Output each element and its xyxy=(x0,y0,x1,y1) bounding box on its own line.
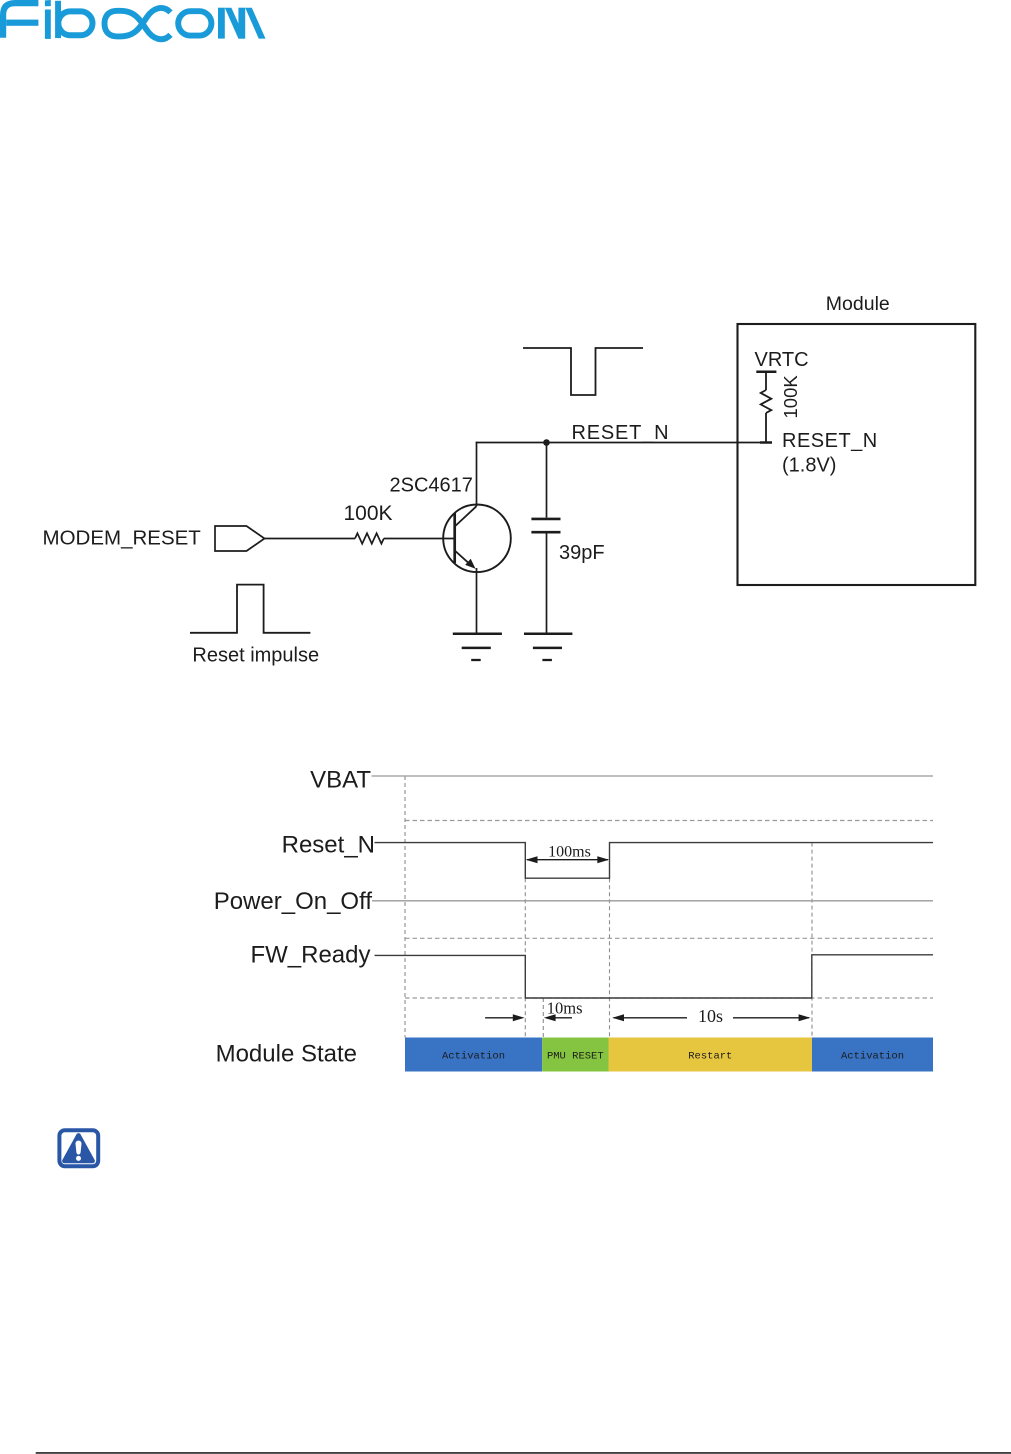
svg-text:PMU RESET: PMU RESET xyxy=(547,1050,604,1062)
svg-text:VRTC: VRTC xyxy=(755,349,809,371)
warning icon xyxy=(59,1130,98,1166)
svg-text:Activation: Activation xyxy=(841,1050,904,1062)
annotation 100ms double arrow xyxy=(526,856,609,863)
signal Reset_N waveform xyxy=(375,843,934,879)
Fibocom logo xyxy=(0,0,266,39)
module block U1 xyxy=(738,324,976,585)
svg-text:10ms: 10ms xyxy=(547,999,583,1018)
ground under transistor xyxy=(453,634,502,660)
grid dashed vertical at fw rise xyxy=(811,843,813,1038)
svg-text:Module State: Module State xyxy=(216,1040,357,1067)
logo letter F xyxy=(0,0,38,38)
wire emitter down to ground xyxy=(476,568,478,634)
wire collector up to RESET_N net xyxy=(476,442,478,507)
svg-text:Reset_N: Reset_N xyxy=(282,832,375,859)
wire resistor to transistor base xyxy=(384,538,454,540)
connector MODEM_RESET input pin xyxy=(215,526,265,551)
svg-text:(1.8V): (1.8V) xyxy=(782,455,836,477)
svg-text:Power_On_Off: Power_On_Off xyxy=(214,888,373,915)
waveform reset impulse xyxy=(190,585,310,633)
logo letter o xyxy=(178,11,211,35)
svg-text:100K: 100K xyxy=(780,375,801,419)
svg-text:Restart: Restart xyxy=(688,1050,732,1062)
wire capacitor down to ground xyxy=(546,534,548,634)
grid dashed vertical at t0 xyxy=(404,776,406,1038)
logo oc ligature xyxy=(105,8,171,39)
grid dashed horizontal line 1 xyxy=(405,820,933,822)
svg-text:Activation: Activation xyxy=(442,1050,505,1062)
logo letter i xyxy=(45,0,51,6)
svg-text:10s: 10s xyxy=(698,1006,723,1026)
ground under capacitor xyxy=(524,634,572,660)
logo letter b xyxy=(55,1,61,38)
node junction dot on RESET_N xyxy=(543,439,550,446)
signal FW_Ready waveform xyxy=(375,955,934,998)
grid dashed horizontal line 2 xyxy=(405,937,933,939)
state bar segment Activation 2 (blue) xyxy=(812,1038,933,1072)
waveform negative pulse (reset_n shape) xyxy=(523,348,643,395)
state bar segment Activation (blue) xyxy=(405,1038,542,1072)
grid dashed vertical at reset rise xyxy=(609,878,611,1037)
grid dashed vertical at reset fall xyxy=(524,878,526,1037)
grid dashed horizontal line 3 xyxy=(405,997,933,999)
svg-text:39pF: 39pF xyxy=(559,542,605,564)
state bar segment Restart (yellow) xyxy=(609,1038,813,1072)
svg-text:Reset impulse: Reset impulse xyxy=(192,645,319,667)
wire connector to resistor xyxy=(265,538,356,540)
resistor R1 100K (series base resistor) xyxy=(355,533,384,543)
capacitor C1 39pF xyxy=(531,519,560,532)
svg-text:100ms: 100ms xyxy=(548,843,591,860)
svg-text:VBAT: VBAT xyxy=(310,766,371,793)
svg-text:MODEM_RESET: MODEM_RESET xyxy=(43,527,202,550)
svg-text:100K: 100K xyxy=(344,502,393,525)
svg-text:Module: Module xyxy=(826,293,890,315)
footer rule xyxy=(36,1452,1011,1454)
state bar segment PMU RESET (green) xyxy=(542,1038,608,1072)
svg-text:2SC4617: 2SC4617 xyxy=(390,475,473,497)
wire RESET_N net (collector to module) xyxy=(476,442,766,444)
annotation arrow into reset fall xyxy=(485,1014,524,1021)
annotation arrow from pmu start xyxy=(544,1014,572,1021)
wire junction down to capacitor xyxy=(546,443,548,518)
svg-text:FW_Ready: FW_Ready xyxy=(250,942,370,969)
grid dashed vertical at pmu start xyxy=(542,998,544,1038)
svg-text:RESET_N: RESET_N xyxy=(782,430,878,452)
signal VBAT line xyxy=(372,775,934,777)
signal Power_On_Off line xyxy=(372,900,933,902)
annotation 10s double arrow xyxy=(612,1014,810,1021)
transistor Q1 2SC4617 xyxy=(443,505,511,573)
resistor R2 100K pull-up (inside module) xyxy=(756,372,776,443)
logo letter m xyxy=(218,8,225,39)
svg-text:RESET_N: RESET_N xyxy=(572,422,670,444)
